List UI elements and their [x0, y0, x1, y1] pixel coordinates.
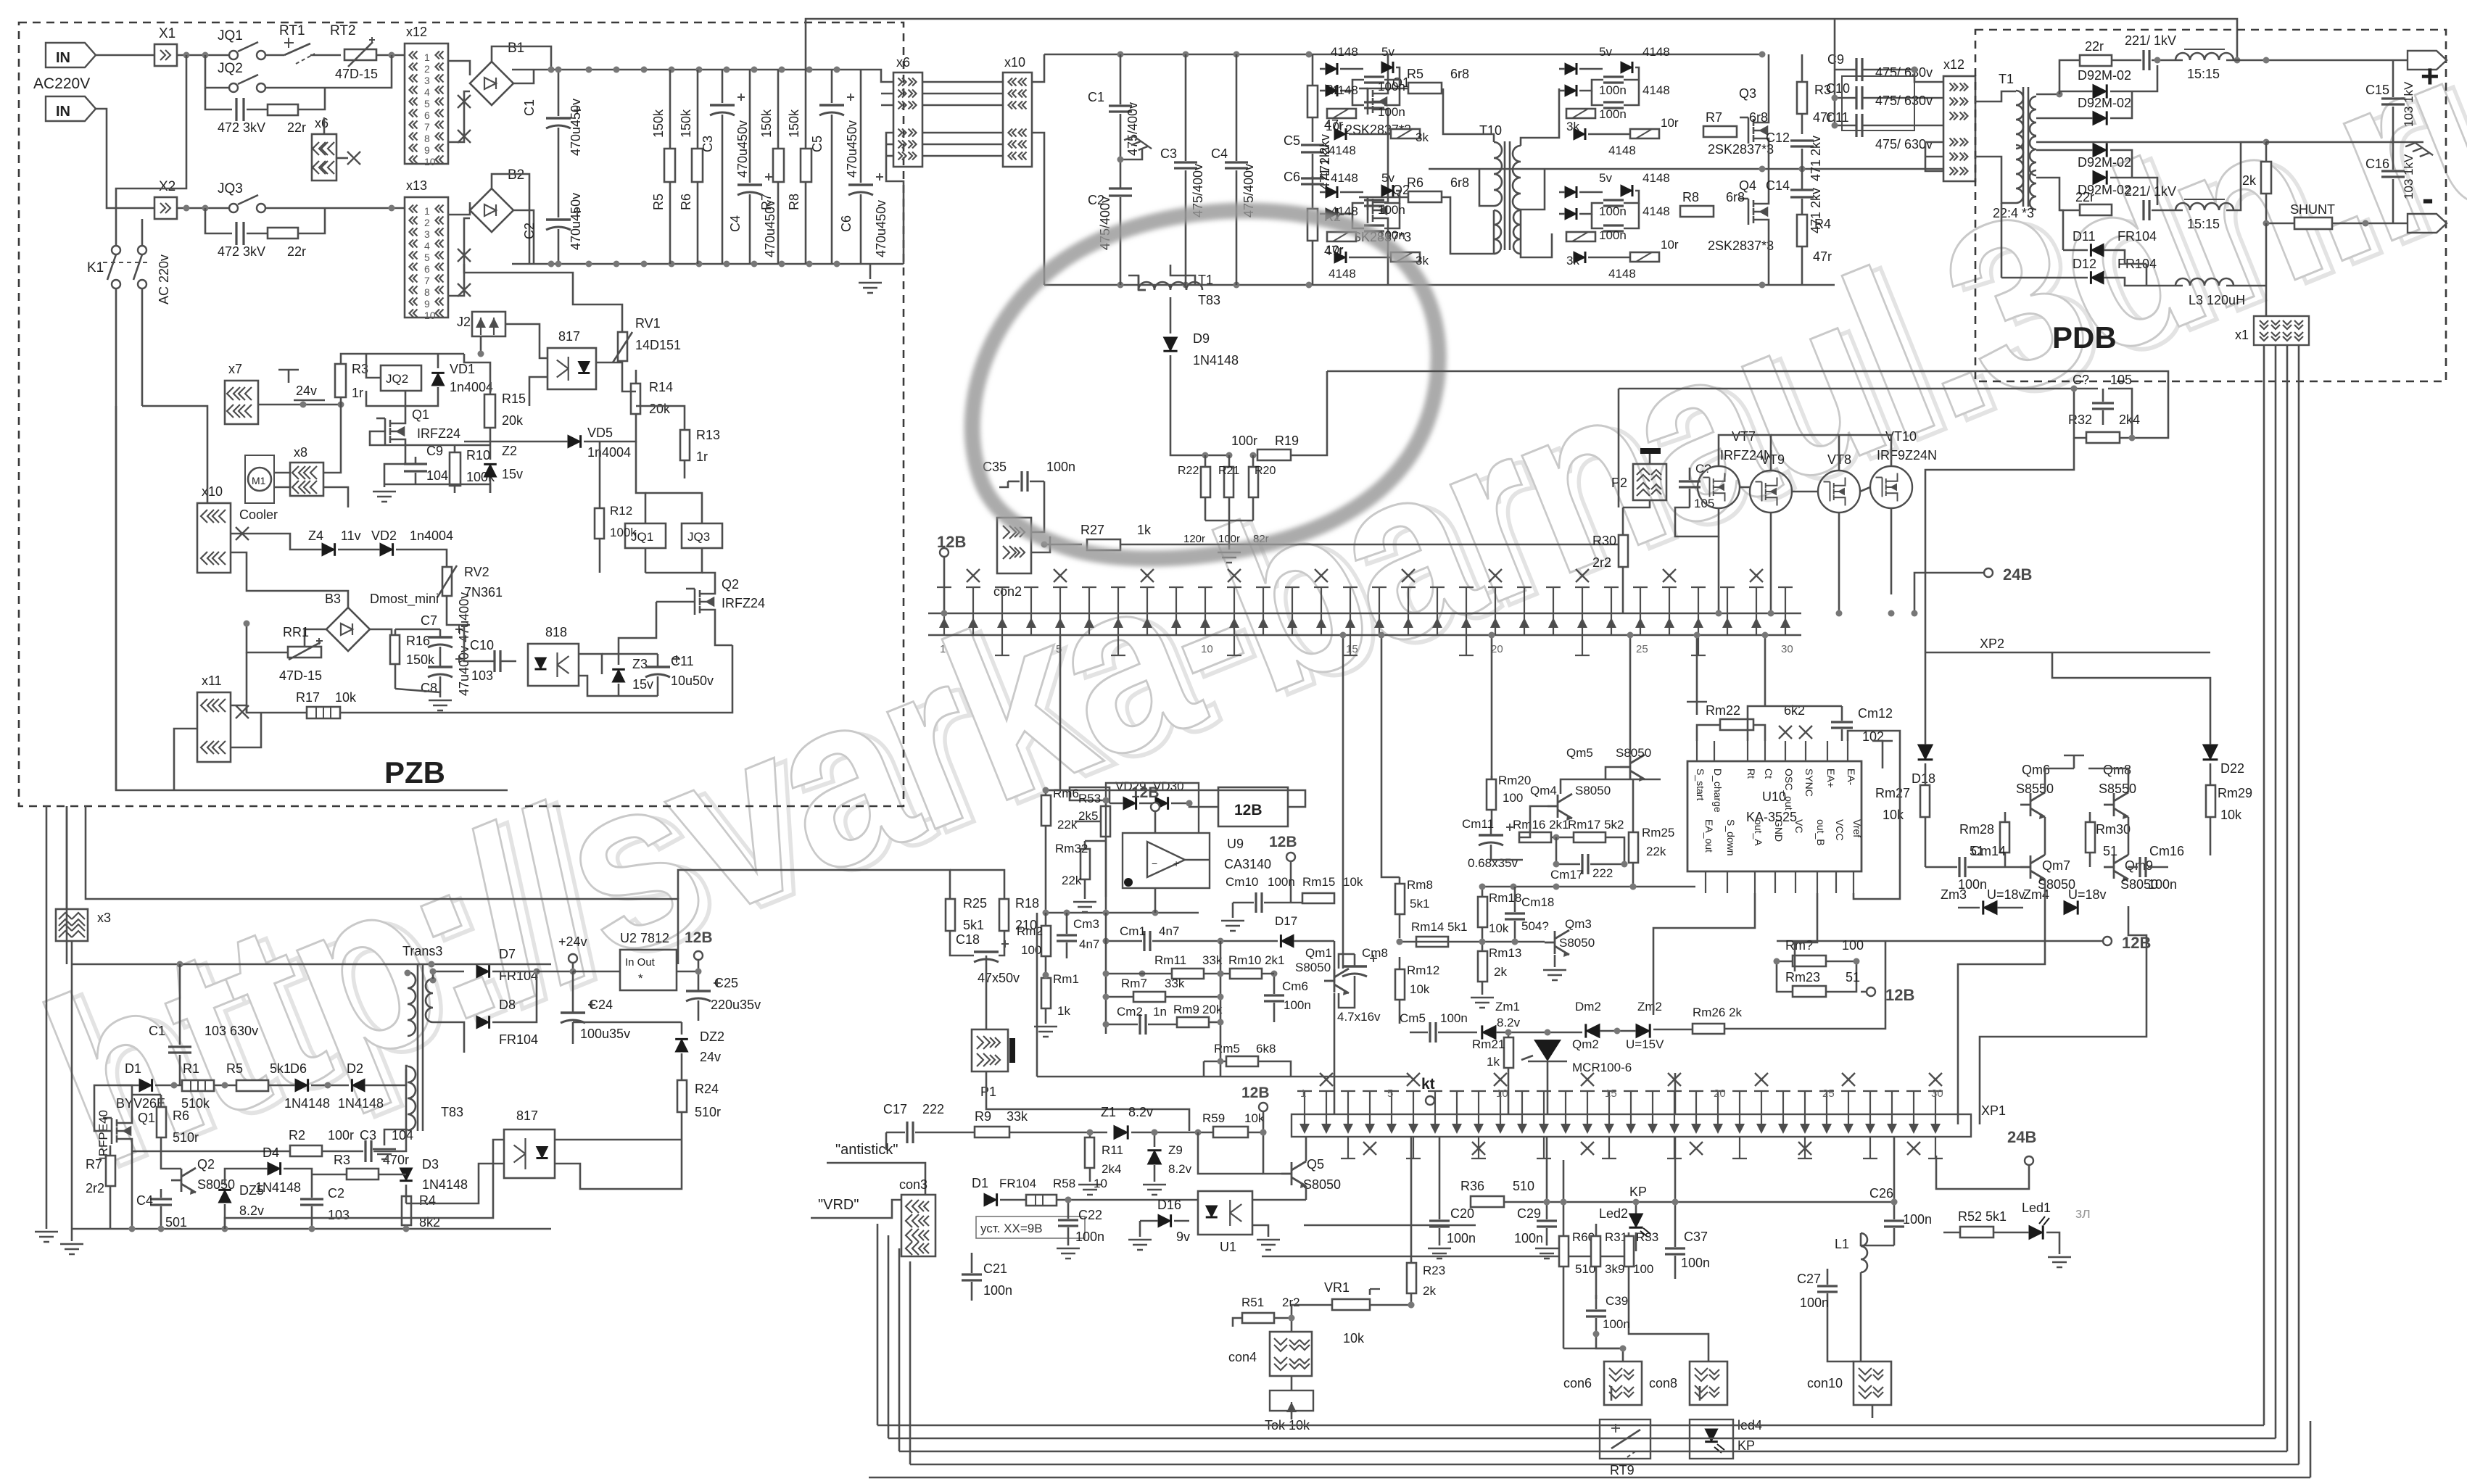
T1 from bottom rail: [1170, 265, 1195, 285]
svg-text:47D-15: 47D-15: [279, 668, 322, 683]
relay contact JQ1: [229, 51, 238, 59]
resistor R15 20k: [484, 394, 495, 428]
resistor R53 2k5: [1101, 806, 1110, 837]
diode D11 FR104: [2091, 244, 2104, 257]
resistor R5 150k: [669, 70, 671, 149]
wire RT1 to RT2: [310, 54, 341, 57]
svg-text:15v: 15v: [632, 677, 653, 692]
junction dots x12 input: [389, 52, 395, 59]
x1 vbus4: [2298, 345, 2300, 1464]
svg-text:15: 15: [1605, 1087, 1617, 1100]
wire R3 top rail: [341, 354, 464, 362]
gate snubber cluster A1 (4148/5v/100n): [1326, 63, 1337, 75]
svg-text:L1: L1: [1835, 1237, 1849, 1251]
svg-text:Z1: Z1: [1101, 1105, 1116, 1119]
svg-text:T1: T1: [1198, 273, 1213, 287]
capacitor C27 100n: [1817, 1286, 1838, 1292]
svg-text:818: 818: [545, 625, 567, 639]
bottom rail aux: [384, 484, 490, 493]
relay J2 box: [472, 312, 505, 336]
D4 right: [284, 1169, 312, 1174]
feedback left drop: [1326, 371, 1328, 442]
svg-text:Rm13: Rm13: [1489, 946, 1521, 960]
svg-text:100n: 100n: [1599, 83, 1627, 97]
Trans3 prim low: [406, 1066, 408, 1085]
svg-text:R11: R11: [1102, 1143, 1123, 1157]
12B wire mid: [1777, 940, 2103, 942]
svg-text:1n4004: 1n4004: [410, 528, 453, 543]
capacitor C15 103 1kV: [2381, 99, 2405, 104]
feedback mid drop: [1618, 389, 1620, 507]
svg-text:VCC: VCC: [1834, 819, 1846, 841]
Q2 main drain: [1387, 169, 1389, 191]
connector con6: [1604, 1361, 1642, 1405]
svg-text:C16: C16: [2365, 157, 2389, 171]
aux dots: [430, 969, 437, 975]
capacitor C18 47x50v: [974, 950, 999, 953]
contactor K1 pole1: [112, 246, 120, 254]
analog ladder right vertical: [1220, 941, 1222, 1077]
svg-text:VC: VC: [1793, 819, 1805, 833]
svg-text:4148: 4148: [1331, 83, 1358, 97]
feedback wire lower: [1619, 388, 2074, 390]
svg-text:10k: 10k: [2220, 808, 2242, 822]
input terminal IN2: [46, 96, 96, 121]
svg-text:R36: R36: [1460, 1179, 1484, 1193]
svg-text:6r8: 6r8: [1450, 67, 1469, 81]
R cluster gnd stem: [1228, 521, 1231, 550]
svg-text:Rm7: Rm7: [1121, 977, 1147, 990]
svg-text:R30: R30: [1592, 534, 1616, 548]
wire JQ2 branch down: [205, 88, 232, 109]
Q2 gate from 818: [619, 602, 656, 654]
capacitor C4 501: [150, 1199, 172, 1205]
svg-text:100n: 100n: [1903, 1212, 1932, 1227]
rm16 dot: [1553, 834, 1560, 841]
PZB bottom exit wires2: [86, 806, 464, 899]
svg-text:B3: B3: [325, 592, 341, 606]
row4: [311, 1085, 349, 1087]
R5 to Q1 gate: [1368, 88, 1408, 101]
resistor R32 2k4: [2086, 432, 2120, 443]
svg-text:C29: C29: [1517, 1206, 1541, 1221]
zener Zm1 8.2v: [1482, 1025, 1496, 1039]
svg-text:Rm17 5k2: Rm17 5k2: [1568, 818, 1624, 832]
svg-text:5: 5: [424, 252, 430, 263]
svg-text:104: 104: [426, 468, 448, 483]
svg-text:10k: 10k: [1244, 1111, 1265, 1125]
bottom rail to x6: [886, 133, 904, 264]
VT9 down: [1770, 513, 1772, 529]
R32 loop right: [2108, 389, 2132, 438]
svg-text:12B: 12B: [1885, 986, 1914, 1004]
transistor Qm4 S8050: [1547, 794, 1572, 821]
svg-text:100n: 100n: [1440, 1011, 1468, 1025]
svg-text:K1: K1: [87, 260, 104, 275]
Q2 source: [715, 621, 732, 645]
svg-text:Rm9: Rm9: [1173, 1003, 1199, 1016]
wire x6 link: [336, 157, 348, 159]
bottom rail r36: [1262, 1256, 1629, 1258]
resistor R10 100k: [450, 452, 460, 486]
P1 stem: [986, 1071, 1189, 1131]
svg-text:EA+: EA+: [1825, 768, 1837, 788]
JQ1 bottom wire: [645, 548, 647, 573]
VD30 out: [1171, 803, 1189, 805]
gate rail Q1: [370, 431, 490, 445]
mid rail to x12 lower pins: [1925, 142, 1943, 169]
svg-text:con3: con3: [899, 1177, 927, 1192]
wire JQ3 to x13: [265, 207, 405, 210]
VD2 to RV2: [396, 550, 447, 567]
VT8 down: [1838, 513, 1840, 529]
svg-text:6r8: 6r8: [1726, 190, 1745, 204]
svg-text:C12: C12: [1766, 130, 1790, 145]
Qm1 emitter: [1339, 992, 1355, 1008]
thermostat RT9: [1600, 1419, 1650, 1459]
svg-text:Rm21: Rm21: [1472, 1037, 1505, 1051]
svg-text:B2: B2: [508, 167, 524, 183]
Z1 to R59: [1131, 1132, 1213, 1134]
mosfet VT9: [1750, 471, 1792, 513]
module right: [1046, 790, 1305, 807]
resistor Rm9 20k: [1177, 1017, 1209, 1027]
svg-text:RT1: RT1: [279, 23, 305, 38]
Qm pair mid2: [2128, 817, 2130, 855]
motor M1: [248, 468, 271, 491]
shunt left: [2266, 223, 2294, 225]
svg-text:RV2: RV2: [464, 565, 489, 579]
capacitor C1 475/400v: [1109, 106, 1132, 112]
lower diode wires: [2036, 149, 2093, 152]
svg-text:R6: R6: [1407, 175, 1423, 190]
x mark x12 pin8: [458, 130, 471, 143]
svg-text:472 3kV: 472 3kV: [218, 244, 265, 259]
transistor Qm1 S8050: [1324, 969, 1349, 995]
mid column drops U10 b: [1764, 635, 1766, 706]
svg-text:R5: R5: [1407, 67, 1423, 81]
interlink wire y145: [922, 104, 1003, 107]
ground B3 bank: [395, 689, 440, 697]
resistor Rm2 100: [1041, 926, 1051, 956]
mosfet Q1 IRFPE40: [103, 1112, 132, 1150]
T10 sec2: [1521, 210, 1552, 257]
svg-text:R16: R16: [406, 634, 430, 648]
XP2 to analog drop 4: [1491, 635, 1493, 779]
resistor R14 20k: [631, 384, 640, 414]
svg-text:"antistick": "antistick": [835, 1142, 898, 1158]
long wire from PZB to P1: [464, 899, 678, 964]
pot VR1 10k: [1332, 1299, 1370, 1310]
svg-text:kt: kt: [1421, 1076, 1435, 1093]
capacitor Cm17 222: [1582, 854, 1588, 874]
connector x12 (to PDB): [1943, 76, 1975, 181]
Q2 main source: [1387, 229, 1389, 285]
resistor R3 1r: [340, 362, 342, 366]
x3 down: [71, 941, 73, 1229]
mosfet Q1 2SK2837: [1359, 83, 1388, 120]
diode D6 1N4148: [295, 1079, 308, 1092]
chassis gnd C1C2: [1124, 133, 1152, 156]
svg-text:100n: 100n: [1378, 105, 1405, 119]
svg-text:100r: 100r: [328, 1128, 354, 1143]
resistor R5 5k1 (flyback): [236, 1080, 268, 1091]
svg-text:4148: 4148: [1331, 45, 1358, 59]
zener DZ2 24v: [675, 1039, 688, 1052]
Q3 drain up: [1768, 54, 1770, 112]
U9 lower rail: [1046, 912, 1199, 914]
resistor Rm29 10k: [2206, 785, 2215, 817]
C9-C11 box: [1842, 76, 1914, 130]
R60 wires down: [1563, 1348, 1623, 1350]
C27 down: [1827, 1311, 1854, 1361]
svg-text:4.7x16v: 4.7x16v: [1337, 1010, 1381, 1024]
R14/RV1 link: [622, 384, 636, 391]
ground Trans3: [373, 1149, 396, 1159]
svg-text:R15: R15: [502, 391, 526, 406]
T10 prim2: [1442, 197, 1494, 254]
svg-text:Rm27: Rm27: [1875, 786, 1910, 800]
svg-text:In Out: In Out: [625, 956, 656, 969]
main bottom rail: [1044, 284, 1835, 286]
R3 right: [379, 1174, 406, 1176]
+24v terminal: [569, 954, 577, 963]
connector x1: [2254, 316, 2309, 345]
VD5 rail: [464, 441, 568, 443]
svg-text:Rm5: Rm5: [1214, 1042, 1240, 1056]
svg-text:GND: GND: [1773, 819, 1785, 842]
svg-text:MCR100-6: MCR100-6: [1572, 1061, 1632, 1074]
Q1 main drain: [1387, 54, 1389, 83]
resistor R60 510: [1559, 1236, 1569, 1267]
svg-text:R19: R19: [1275, 434, 1299, 448]
svg-text:D92M-02: D92M-02: [2078, 155, 2131, 170]
svg-text:9: 9: [424, 298, 430, 310]
terminal 12B (right of U9): [1286, 853, 1295, 861]
Led2 down2: [1635, 1232, 1637, 1251]
svg-text:Trans3: Trans3: [402, 944, 442, 958]
R30 drop: [1622, 589, 1624, 613]
resistor Rm30 51: [2086, 822, 2095, 853]
zener Zm3 U=18v: [1983, 900, 1997, 914]
gnd led1: [2048, 1257, 2071, 1267]
svg-text:out_B: out_B: [1815, 819, 1827, 846]
capacitor Cm16 100n: [2140, 857, 2146, 877]
svg-text:7: 7: [424, 275, 430, 286]
svg-text:2r2: 2r2: [86, 1181, 104, 1195]
wire K1 pole2 down: [141, 289, 144, 406]
zener DZ5 8.2v: [218, 1190, 231, 1203]
connector x7: [225, 381, 258, 424]
x10 left wires: [142, 406, 207, 503]
zm dots: [1505, 1029, 1512, 1036]
mid column drops U10: [1696, 635, 1698, 702]
capacitor Cm8 4.7x16v: [1342, 965, 1367, 967]
resistor Rm6 22k: [1041, 795, 1051, 826]
svg-text:RT2: RT2: [330, 23, 356, 38]
connector con2: [997, 518, 1031, 573]
diode D92M-02 c: [2093, 143, 2107, 157]
capacitor C26 100n: [1884, 1221, 1904, 1227]
U10 outB down: [1795, 893, 1817, 971]
svg-text:20k: 20k: [649, 402, 671, 416]
terminal 24B (top): [1984, 568, 1993, 577]
svg-text:D_charge: D_charge: [1712, 768, 1724, 813]
svg-text:C9: C9: [1827, 52, 1844, 67]
svg-text:4148: 4148: [1642, 204, 1670, 218]
wire x13 to B2: [448, 218, 470, 296]
R52 wires: [1943, 1232, 1960, 1234]
svg-text:уст. XX=9В: уст. XX=9В: [980, 1222, 1043, 1235]
svg-text:4148: 4148: [1608, 267, 1636, 281]
svg-text:S8050: S8050: [1303, 1177, 1341, 1192]
bridge rectifier B1: [470, 62, 513, 105]
resistor R2 100r (flyback): [290, 1145, 322, 1156]
coil to + terminal: [2226, 59, 2408, 62]
resistor R5 6r8: [1408, 83, 1442, 94]
svg-text:3k: 3k: [1566, 120, 1579, 133]
817 left wires: [540, 347, 547, 358]
svg-text:22r: 22r: [2085, 39, 2104, 54]
resistor Rm10 2k1: [1230, 969, 1262, 979]
analog to XP1 drop d: [1674, 1073, 1677, 1114]
svg-text:3: 3: [424, 228, 430, 240]
d pair left: [2059, 91, 2093, 94]
zener Z3 15v: [612, 669, 625, 682]
svg-text:4148: 4148: [1328, 267, 1356, 281]
817 to RV1: [596, 362, 622, 364]
svg-text:зл: зл: [2075, 1206, 2091, 1222]
varistor RV2 7N361: [442, 567, 452, 596]
inductor 15:15 top: [2175, 53, 2233, 60]
svg-text:x10: x10: [1004, 55, 1025, 70]
Z3 C11 rail: [602, 653, 658, 655]
capacitor C35 100n: [1022, 471, 1028, 492]
svg-text:30: 30: [1931, 1087, 1943, 1100]
svg-text:Rm28: Rm28: [1959, 822, 1994, 837]
VT8 10 link: [1860, 487, 1870, 492]
svg-text:100n: 100n: [1681, 1256, 1710, 1270]
capacitor C3 104 (flyback): [365, 1140, 371, 1162]
flyback diode row: [155, 1085, 182, 1087]
svg-text:15v: 15v: [502, 467, 523, 481]
diode D8 FR104: [476, 1016, 489, 1029]
svg-text:Rm10 2k1: Rm10 2k1: [1228, 953, 1284, 967]
capacitor 472 3kV (top filter): [236, 98, 244, 121]
svg-text:U=15V: U=15V: [1626, 1037, 1664, 1051]
inductor T1 T83 (center): [1139, 282, 1202, 290]
svg-text:R58: R58: [1053, 1177, 1075, 1190]
svg-text:100n: 100n: [1046, 460, 1075, 474]
resistor R12 100k: [595, 508, 604, 539]
Q2 fb connections: [161, 1160, 181, 1169]
zener Z1 8.2v: [1114, 1125, 1128, 1139]
svg-text:150k: 150k: [406, 652, 435, 667]
relay contact JQ3: [229, 204, 238, 212]
svg-text:P1: P1: [980, 1085, 996, 1099]
svg-text:Dmost_mini: Dmost_mini: [370, 592, 439, 607]
resistor R17 10k: [307, 707, 340, 718]
svg-text:Cm5: Cm5: [1400, 1011, 1426, 1025]
svg-text:OSC_out: OSC_out: [1783, 768, 1795, 811]
connector con4: [1270, 1332, 1312, 1376]
svg-text:Rm20: Rm20: [1498, 774, 1531, 787]
U1 wires right: [1252, 1199, 1306, 1201]
capacitor Cm10 100n: [1256, 892, 1262, 913]
svg-text:471 2kv: 471 2kv: [1809, 136, 1823, 181]
top rail flyback: [72, 963, 551, 966]
svg-text:10k: 10k: [335, 690, 357, 705]
R36 right wire: [1505, 1201, 1894, 1203]
Q3 source down: [1768, 149, 1770, 169]
svg-text:1N4148: 1N4148: [255, 1180, 301, 1195]
connector x3: [56, 909, 88, 941]
x11 left wire: [174, 729, 197, 790]
svg-text:2k4: 2k4: [1102, 1162, 1121, 1176]
wire IN1 to X1: [96, 54, 154, 57]
svg-text:SYNC: SYNC: [1803, 768, 1815, 797]
chassis gnd PDB: [2405, 139, 2433, 162]
svg-text:100r: 100r: [1231, 434, 1257, 448]
svg-text:47x50v: 47x50v: [978, 971, 1020, 985]
svg-text:Zm1: Zm1: [1495, 1000, 1520, 1013]
resistor R6 6r8: [1408, 191, 1442, 202]
capacitor C? 105: [1679, 481, 1701, 487]
LED Led2 KP: [1629, 1214, 1642, 1227]
mosfet VT7 IRFZ24N: [1698, 466, 1740, 508]
svg-text:9: 9: [424, 144, 430, 156]
12B right wire: [1290, 861, 1292, 902]
svg-text:S8050: S8050: [1295, 961, 1331, 974]
svg-text:R2: R2: [289, 1128, 305, 1143]
capacitor C2 470u450v: [558, 165, 560, 217]
B3 dots: [244, 621, 250, 627]
cap bank rail to x6: [870, 70, 893, 82]
VR1 left wire: [1292, 1305, 1331, 1318]
svg-text:Cm1: Cm1: [1120, 924, 1146, 938]
svg-text:C10: C10: [470, 638, 494, 652]
+24v stem: [572, 963, 574, 971]
R19 right wire: [1291, 442, 1327, 455]
pdb dots: [2057, 91, 2063, 98]
D22 up wire: [2052, 652, 2210, 745]
resistor 22r (top filter): [268, 104, 298, 115]
svg-text:8.2v: 8.2v: [1497, 1016, 1521, 1029]
svg-text:DZ2: DZ2: [700, 1029, 724, 1044]
thyristor Qm2 MCR100-6: [1534, 1040, 1561, 1061]
capacitor C4 470u450v: [749, 70, 751, 183]
817 fb left: [406, 1164, 504, 1203]
svg-text:S8050: S8050: [1559, 936, 1595, 950]
svg-text:con8: con8: [1649, 1376, 1677, 1390]
resistor R30 2r2: [1619, 535, 1628, 567]
svg-text:Rm23: Rm23: [1785, 970, 1820, 985]
svg-text:D12: D12: [2073, 257, 2096, 271]
svg-text:47D-15: 47D-15: [335, 67, 378, 81]
817 left wire2: [529, 377, 547, 406]
gnd Cm10: [1232, 903, 1234, 918]
rm16 mid down: [1555, 837, 1558, 864]
svg-text:U=18v: U=18v: [1987, 887, 2025, 902]
svg-text:Qm3: Qm3: [1565, 917, 1592, 931]
x mark x10: [236, 527, 249, 540]
resistor R1 510k (flyback): [182, 1080, 214, 1091]
C1C2 dot: [1117, 157, 1124, 163]
U10 outA down: [1653, 893, 1755, 1015]
svg-text:12B: 12B: [1131, 784, 1160, 801]
22r to cap: [2112, 59, 2141, 62]
svg-text:1N4148: 1N4148: [422, 1177, 468, 1192]
